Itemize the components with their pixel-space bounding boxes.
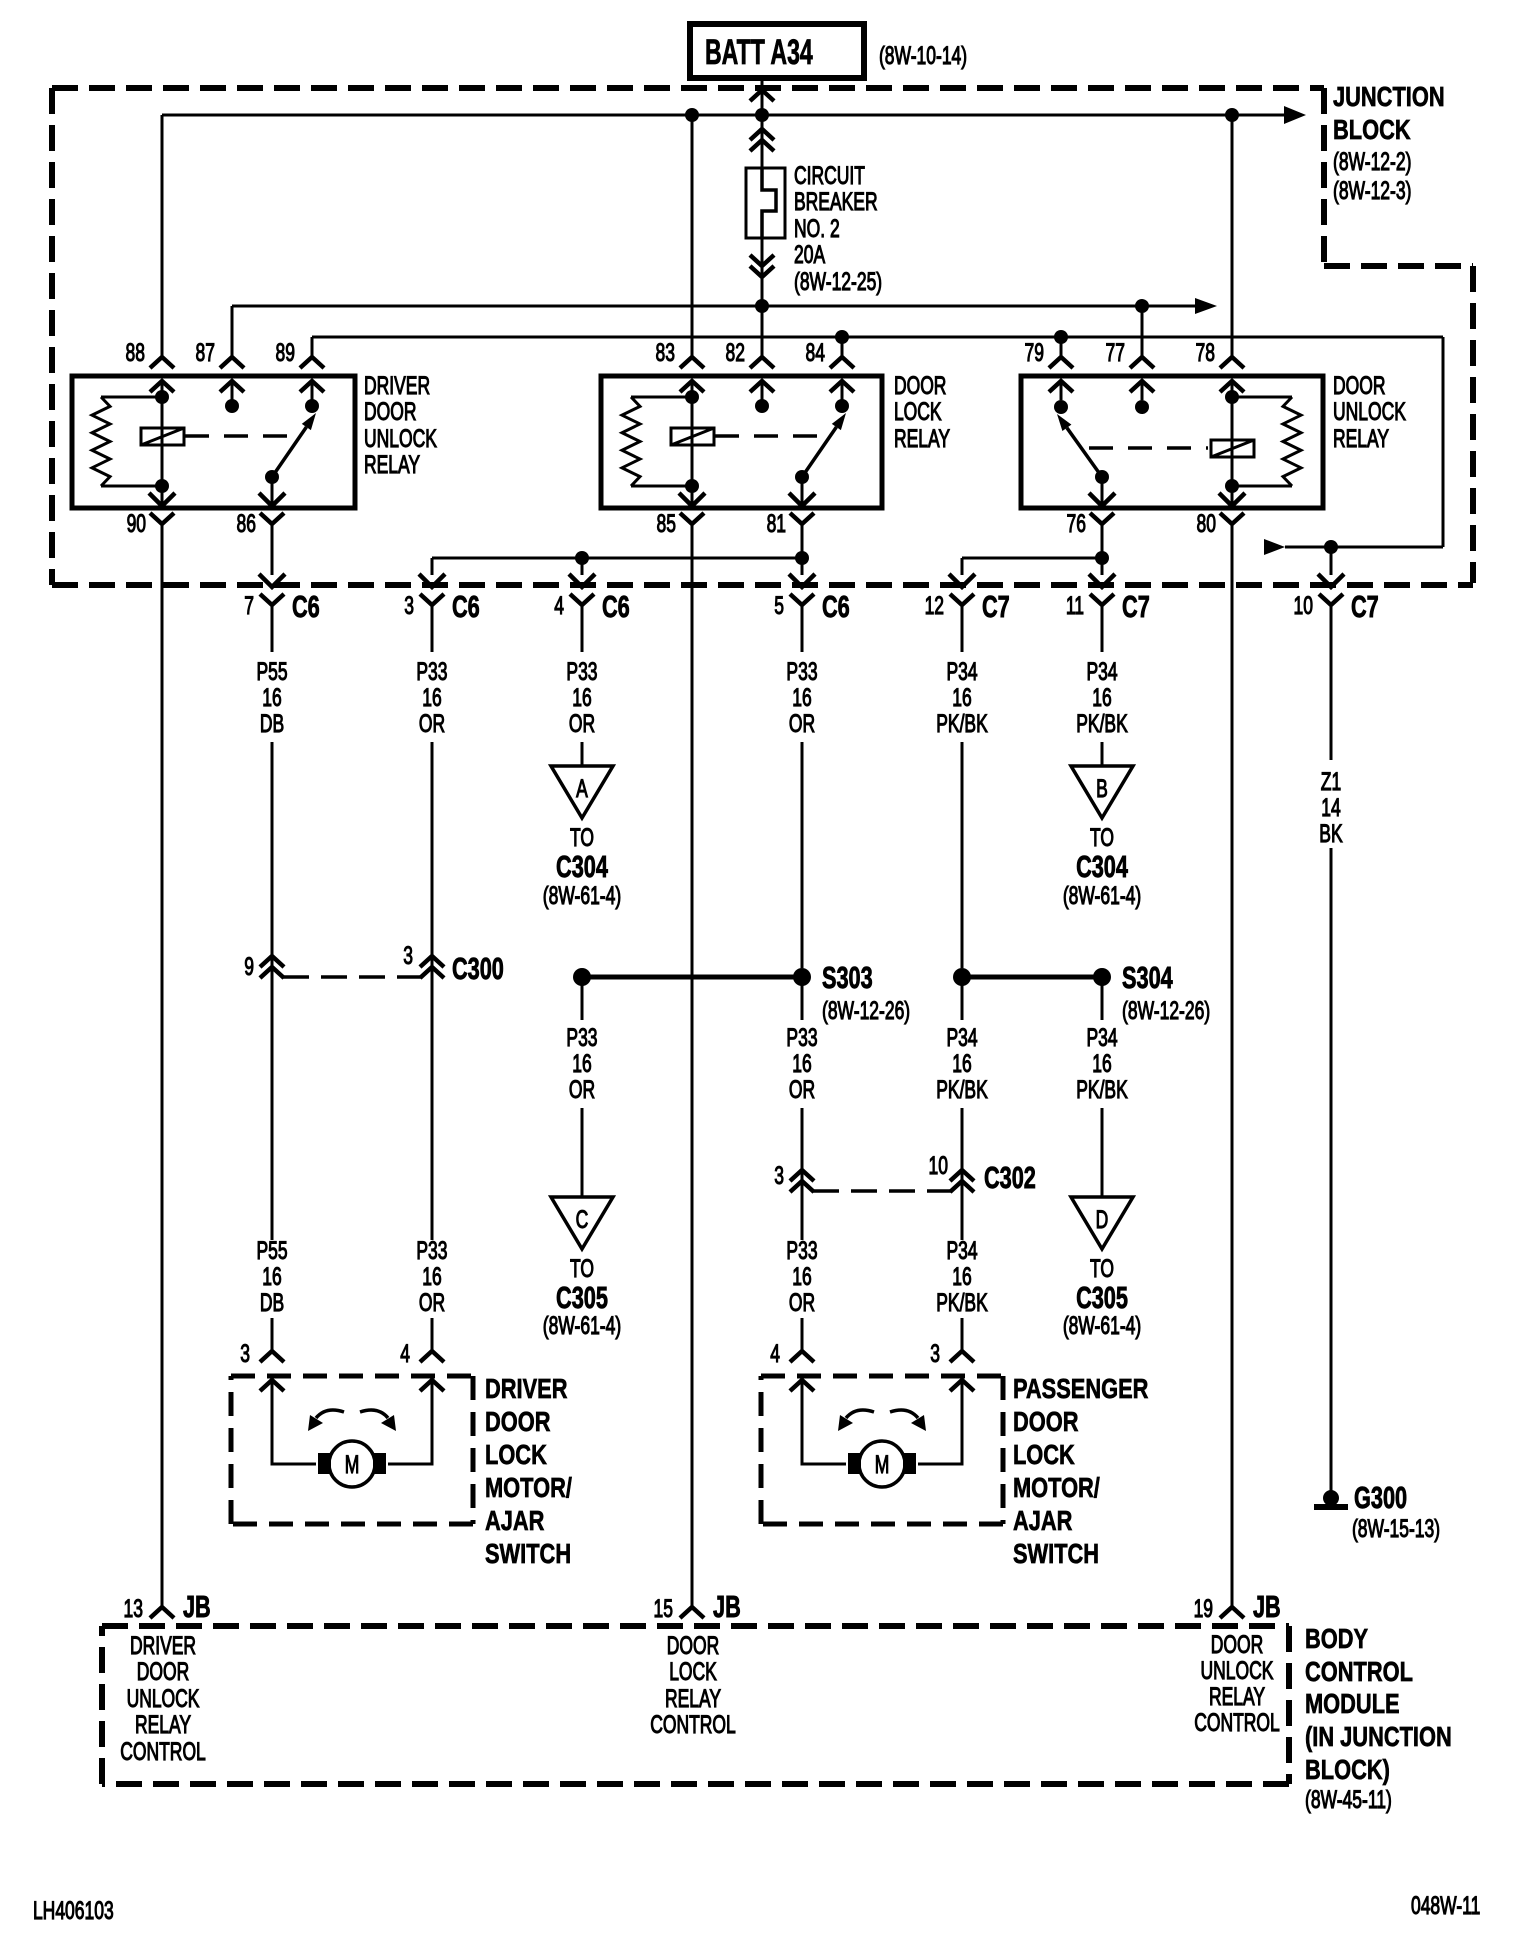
- label driver door unlock relay control: [120, 1631, 206, 1766]
- svg-text:C6: C6: [292, 589, 320, 624]
- wire label P55 16 DB: [256, 657, 287, 738]
- svg-text:RELAY: RELAY: [135, 1710, 191, 1739]
- junction at 4 C6 tap: [575, 551, 589, 565]
- label TO C305: [1063, 1254, 1141, 1340]
- svg-text:SWITCH: SWITCH: [485, 1538, 571, 1569]
- svg-text:3: 3: [240, 1339, 250, 1368]
- svg-text:(8W-12-2): (8W-12-2): [1333, 147, 1411, 176]
- svg-text:OR: OR: [789, 1288, 815, 1317]
- svg-text:16: 16: [792, 1262, 811, 1291]
- svg-text:(IN JUNCTION: (IN JUNCTION: [1305, 1721, 1452, 1752]
- svg-text:16: 16: [1092, 683, 1111, 712]
- wire S304 branch to triangle D: [1101, 984, 1104, 1197]
- junction at pin 81 column: [795, 551, 809, 565]
- svg-text:M: M: [875, 1450, 890, 1479]
- label passenger door lock motor / ajar switch: [1013, 1373, 1148, 1569]
- svg-text:JB: JB: [183, 1589, 211, 1624]
- connector C300 (pins 9 and 3): [244, 941, 504, 986]
- relay switch (movable contact): [265, 413, 316, 506]
- svg-text:RELAY: RELAY: [364, 450, 420, 479]
- relay coil suppression resistor: [622, 397, 692, 486]
- svg-text:LOCK: LOCK: [894, 397, 942, 426]
- svg-text:C7: C7: [982, 589, 1010, 624]
- svg-text:15: 15: [654, 1594, 673, 1623]
- battery feed box BATT A34: [690, 24, 864, 78]
- svg-text:87: 87: [196, 338, 215, 367]
- label door unlock relay control: [1194, 1630, 1280, 1737]
- wire P33 16 OR (C300-3 to driver motor pin 4): [400, 1318, 444, 1368]
- wire P34 16 PK/BK (C7-11 to triangle B): [1089, 524, 1115, 766]
- circuit breaker No. 2 20A: [746, 168, 785, 238]
- connector C6 pin 3 at junction block border: [404, 589, 479, 624]
- svg-text:P33: P33: [416, 657, 447, 686]
- svg-text:C7: C7: [1122, 589, 1150, 624]
- svg-text:(8W-61-4): (8W-61-4): [1063, 881, 1141, 910]
- svg-text:13: 13: [124, 1594, 143, 1623]
- svg-text:P34: P34: [1086, 1023, 1117, 1052]
- junction on bus 1 at battery column: [755, 108, 769, 122]
- svg-text:C: C: [576, 1205, 589, 1234]
- relay pin 90: [127, 493, 175, 538]
- svg-text:C304: C304: [1076, 849, 1128, 884]
- svg-text:RELAY: RELAY: [1333, 424, 1389, 453]
- wire P34 16 PK/BK (C302-10 to passenger motor pin 3): [930, 1318, 974, 1368]
- svg-text:CIRCUIT: CIRCUIT: [794, 161, 865, 190]
- splice S303: [573, 960, 910, 1025]
- driver door lock motor / ajar switch motor symbol: [318, 1441, 386, 1487]
- svg-text:JUNCTION: JUNCTION: [1333, 81, 1445, 112]
- wire label P33 16 OR: [786, 1236, 817, 1317]
- svg-text:P34: P34: [946, 657, 977, 686]
- ground G300: [1314, 1480, 1440, 1543]
- svg-text:(8W-61-4): (8W-61-4): [543, 881, 621, 910]
- svg-text:PK/BK: PK/BK: [936, 709, 988, 738]
- svg-text:PK/BK: PK/BK: [1076, 709, 1128, 738]
- svg-text:UNLOCK: UNLOCK: [127, 1684, 200, 1713]
- svg-text:16: 16: [572, 1049, 591, 1078]
- svg-text:LOCK: LOCK: [669, 1657, 717, 1686]
- relay coil: [141, 381, 184, 506]
- connector C6 pin 5 at junction block border: [774, 589, 849, 624]
- connector C6 pin 4 at junction block border: [554, 589, 629, 624]
- svg-text:PK/BK: PK/BK: [936, 1075, 988, 1104]
- relay pin 76: [1067, 493, 1115, 538]
- wire label P34 16 PK/BK: [936, 1023, 988, 1104]
- junction block pin 15 JB: [654, 1589, 741, 1624]
- wire circuit breaker output to bus line 2: [750, 238, 774, 306]
- svg-text:14: 14: [1321, 793, 1340, 822]
- svg-text:(8W-12-26): (8W-12-26): [1122, 996, 1210, 1025]
- svg-text:DRIVER: DRIVER: [364, 371, 430, 400]
- svg-text:20A: 20A: [794, 240, 826, 269]
- relay pin 78: [1196, 115, 1244, 392]
- svg-text:G300: G300: [1354, 1480, 1407, 1515]
- svg-text:C300: C300: [452, 951, 504, 986]
- relay box door unlock relay: [1021, 376, 1323, 508]
- svg-text:SWITCH: SWITCH: [1013, 1538, 1099, 1569]
- svg-text:P33: P33: [786, 1023, 817, 1052]
- relay contact pin 79 stationary: [1054, 400, 1068, 414]
- wire pin 86 to connector C6-7: [259, 524, 285, 587]
- svg-text:A: A: [576, 774, 588, 803]
- connector C6 pin 7 at junction block border: [244, 589, 319, 624]
- splice S304: [953, 960, 1210, 1025]
- svg-text:C6: C6: [452, 589, 480, 624]
- relay coil suppression resistor: [1232, 397, 1301, 486]
- svg-text:(8W-45-11): (8W-45-11): [1305, 1785, 1392, 1814]
- wire P33 16 OR (C6-4 to triangle A): [581, 605, 584, 766]
- svg-text:3: 3: [403, 941, 413, 970]
- relay contact pin 89 stationary: [305, 399, 319, 413]
- svg-text:5: 5: [774, 591, 784, 620]
- svg-text:DOOR: DOOR: [1211, 1630, 1263, 1659]
- svg-text:C305: C305: [556, 1280, 608, 1315]
- wire driver door unlock relay control (pin 90 to JB-13): [150, 524, 174, 1618]
- circuit breaker label: [794, 161, 882, 296]
- junction block dashed border: [52, 88, 1473, 585]
- junction on bus 3 at pin 84 column: [835, 330, 849, 344]
- svg-text:16: 16: [952, 683, 971, 712]
- svg-text:C6: C6: [602, 589, 630, 624]
- svg-text:PASSENGER: PASSENGER: [1013, 1373, 1148, 1404]
- svg-text:LH406103: LH406103: [33, 1896, 114, 1925]
- relay pin 86: [237, 493, 285, 538]
- svg-text:DOOR: DOOR: [894, 371, 946, 400]
- wire label P33 16 OR: [416, 657, 447, 738]
- sheet number 048W-11: [1411, 1891, 1480, 1920]
- junction on bus 1 at pin 83 column: [685, 108, 699, 122]
- relay coil: [1211, 381, 1254, 506]
- connector C7 pin 12 at junction block border: [925, 589, 1010, 624]
- svg-text:OR: OR: [569, 1075, 595, 1104]
- relay pin 80: [1197, 493, 1245, 538]
- wire P55 16 DB (C300-9 to driver motor pin 3): [240, 1318, 284, 1368]
- relay box driver door unlock relay: [72, 376, 355, 508]
- wire S304 branch to C302-10: [961, 984, 964, 1240]
- svg-text:(8W-12-26): (8W-12-26): [822, 996, 910, 1025]
- svg-text:10: 10: [929, 1151, 948, 1180]
- svg-text:16: 16: [422, 1262, 441, 1291]
- wire label P33 16 OR: [786, 657, 817, 738]
- svg-text:16: 16: [262, 1262, 281, 1291]
- svg-text:P33: P33: [566, 657, 597, 686]
- svg-text:(8W-15-13): (8W-15-13): [1352, 1514, 1440, 1543]
- svg-text:D: D: [1096, 1205, 1109, 1234]
- svg-text:C7: C7: [1351, 589, 1379, 624]
- relay pin 79: [1025, 337, 1073, 392]
- label door unlock relay: [1333, 371, 1406, 453]
- relay pin 82: [726, 306, 774, 392]
- svg-text:TO: TO: [1090, 823, 1114, 852]
- svg-text:P33: P33: [416, 1236, 447, 1265]
- relay pin 85: [657, 493, 705, 538]
- svg-text:(8W-12-25): (8W-12-25): [794, 267, 882, 296]
- junction on bus 2 at battery column: [755, 299, 769, 313]
- svg-text:TO: TO: [1090, 1254, 1114, 1283]
- driver door lock motor / ajar switch lead wires: [260, 1380, 444, 1464]
- svg-text:BLOCK: BLOCK: [1333, 114, 1411, 145]
- wire Z1 14 BK to ground: [1330, 605, 1333, 1492]
- svg-text:BK: BK: [1319, 819, 1343, 848]
- svg-text:DRIVER: DRIVER: [485, 1373, 567, 1404]
- svg-text:DRIVER: DRIVER: [130, 1631, 196, 1660]
- svg-text:B: B: [1096, 774, 1108, 803]
- wire relay 81 output distribution line: [419, 558, 802, 587]
- svg-text:PK/BK: PK/BK: [1076, 1075, 1128, 1104]
- wire bus line 2 (circuit breaker output to relay pins 87 / 82 / 77): [232, 298, 1217, 314]
- off-page connector triangle A: [551, 766, 613, 818]
- svg-text:(8W-12-3): (8W-12-3): [1333, 176, 1411, 205]
- svg-text:UNLOCK: UNLOCK: [364, 424, 437, 453]
- driver door lock motor / ajar switch rotation arrows: [308, 1410, 396, 1431]
- wire P33 16 OR (C302-3 to passenger motor pin 4): [770, 1318, 814, 1368]
- svg-text:85: 85: [657, 509, 676, 538]
- svg-text:4: 4: [554, 591, 564, 620]
- wire P33 16 OR (C6-3 to C300-3): [431, 605, 434, 1240]
- svg-text:P55: P55: [256, 1236, 287, 1265]
- svg-text:4: 4: [400, 1339, 410, 1368]
- relay pin 88: [126, 115, 174, 392]
- svg-text:7: 7: [244, 591, 254, 620]
- junction block pin 13 JB: [124, 1589, 211, 1624]
- body control module dashed border: [102, 1626, 1289, 1784]
- svg-text:(8W-61-4): (8W-61-4): [1063, 1311, 1141, 1340]
- svg-text:TO: TO: [570, 1254, 594, 1283]
- passenger door lock motor / ajar switch lead wires: [790, 1380, 974, 1464]
- svg-text:84: 84: [806, 338, 825, 367]
- svg-text:(8W-10-14): (8W-10-14): [879, 41, 967, 70]
- svg-text:16: 16: [262, 683, 281, 712]
- wire door lock relay control (pin 85 to JB-15): [680, 524, 704, 1618]
- svg-text:3: 3: [774, 1161, 784, 1190]
- off-page connector triangle C: [551, 1197, 613, 1249]
- relay switch (movable contact): [795, 413, 846, 506]
- wire relay 76 output distribution line: [949, 558, 1102, 587]
- label door lock relay: [894, 371, 950, 453]
- wire label P34 16 PK/BK: [936, 657, 988, 738]
- junction on bus-3 return at Z1 ground column: [1324, 540, 1338, 554]
- passenger door lock motor / ajar switch rotation arrows: [838, 1410, 926, 1431]
- relay pin 81: [767, 493, 815, 538]
- relay box door lock relay: [601, 376, 882, 508]
- drawing number LH406103: [33, 1896, 114, 1925]
- svg-text:19: 19: [1194, 1594, 1213, 1623]
- svg-text:C304: C304: [556, 849, 608, 884]
- wire label P33 16 OR: [786, 1023, 817, 1104]
- reference (8W-10-14): [879, 41, 967, 70]
- svg-text:81: 81: [767, 509, 786, 538]
- svg-text:4: 4: [770, 1339, 780, 1368]
- svg-text:80: 80: [1197, 509, 1216, 538]
- svg-text:JB: JB: [713, 1589, 741, 1624]
- label TO C304: [543, 823, 621, 910]
- svg-text:16: 16: [572, 683, 591, 712]
- driver door lock motor / ajar switch dashed enclosure: [231, 1376, 473, 1524]
- wire S303 branch to C302-3: [801, 984, 804, 1240]
- wire bus line 3 (relay pins 89 / 84 / 79, loops to door unlock relay feed): [312, 337, 1443, 555]
- wire Z1 tap to connector C7-10: [1318, 547, 1344, 587]
- svg-text:C305: C305: [1076, 1280, 1128, 1315]
- svg-text:UNLOCK: UNLOCK: [1201, 1656, 1274, 1685]
- svg-text:83: 83: [656, 338, 675, 367]
- svg-text:Z1: Z1: [1321, 767, 1341, 796]
- svg-text:16: 16: [422, 683, 441, 712]
- svg-text:RELAY: RELAY: [1209, 1682, 1265, 1711]
- label driver door unlock relay: [364, 371, 437, 479]
- junction on bus 2 at pin 77 column: [1135, 299, 1149, 313]
- svg-text:12: 12: [925, 591, 944, 620]
- svg-text:C302: C302: [984, 1160, 1036, 1195]
- wire label P55 16 DB: [256, 1236, 287, 1317]
- label TO C304: [1063, 823, 1141, 910]
- svg-text:C6: C6: [822, 589, 850, 624]
- svg-text:16: 16: [952, 1049, 971, 1078]
- relay coil suppression resistor: [92, 397, 162, 486]
- svg-text:9: 9: [244, 952, 254, 981]
- svg-text:S303: S303: [822, 960, 873, 995]
- svg-text:(8W-61-4): (8W-61-4): [543, 1311, 621, 1340]
- svg-text:DOOR: DOOR: [667, 1631, 719, 1660]
- svg-text:MODULE: MODULE: [1305, 1688, 1400, 1719]
- svg-text:S304: S304: [1122, 960, 1173, 995]
- label driver door lock motor / ajar switch: [485, 1373, 572, 1569]
- wire label P34 16 PK/BK: [936, 1236, 988, 1317]
- svg-text:OR: OR: [789, 1075, 815, 1104]
- wire label Z1 14 BK: [1319, 767, 1343, 848]
- svg-text:P33: P33: [786, 1236, 817, 1265]
- svg-text:CONTROL: CONTROL: [1194, 1708, 1280, 1737]
- svg-text:16: 16: [792, 1049, 811, 1078]
- svg-text:P34: P34: [946, 1023, 977, 1052]
- wire P33 16 OR (C6-5 to splice S303): [789, 524, 815, 968]
- svg-text:DB: DB: [260, 709, 284, 738]
- svg-text:DOOR: DOOR: [1333, 371, 1385, 400]
- svg-text:77: 77: [1106, 338, 1125, 367]
- relay actuation dashed link: [1089, 446, 1208, 450]
- svg-text:89: 89: [276, 338, 295, 367]
- svg-text:DOOR: DOOR: [364, 397, 416, 426]
- svg-text:PK/BK: PK/BK: [936, 1288, 988, 1317]
- svg-text:OR: OR: [789, 709, 815, 738]
- wire battery feed into junction block: [750, 78, 774, 168]
- svg-text:RELAY: RELAY: [894, 424, 950, 453]
- wire label P33 16 OR: [416, 1236, 447, 1317]
- wire label P33 16 OR: [566, 657, 597, 738]
- off-page connector triangle D: [1071, 1197, 1133, 1249]
- wire bus line 1 (battery feed to relay pins 88 / 83 / 78): [162, 106, 1306, 124]
- svg-text:M: M: [345, 1450, 360, 1479]
- wire P55 16 DB (C6-7 to C300-9): [271, 605, 274, 1240]
- svg-text:BATT A34: BATT A34: [705, 33, 813, 72]
- svg-text:16: 16: [792, 683, 811, 712]
- svg-text:DOOR: DOOR: [485, 1406, 550, 1437]
- svg-text:BLOCK): BLOCK): [1305, 1754, 1390, 1785]
- svg-text:79: 79: [1025, 338, 1044, 367]
- wire S303 branch to triangle C: [581, 984, 584, 1197]
- junction block label: [1333, 81, 1445, 204]
- svg-text:3: 3: [930, 1339, 940, 1368]
- off-page connector triangle B: [1071, 766, 1133, 818]
- svg-text:CONTROL: CONTROL: [650, 1710, 736, 1739]
- svg-text:76: 76: [1067, 509, 1086, 538]
- svg-text:MOTOR/: MOTOR/: [1013, 1472, 1100, 1503]
- svg-text:OR: OR: [569, 709, 595, 738]
- svg-text:CONTROL: CONTROL: [1305, 1656, 1413, 1687]
- svg-text:P33: P33: [786, 657, 817, 686]
- svg-text:LOCK: LOCK: [1013, 1439, 1075, 1470]
- svg-text:16: 16: [1092, 1049, 1111, 1078]
- svg-text:CONTROL: CONTROL: [120, 1737, 206, 1766]
- svg-text:MOTOR/: MOTOR/: [485, 1472, 572, 1503]
- svg-text:048W-11: 048W-11: [1411, 1891, 1480, 1920]
- svg-text:DOOR: DOOR: [137, 1657, 189, 1686]
- relay contact pin 84 stationary: [835, 399, 849, 413]
- passenger door lock motor / ajar switch motor symbol: [848, 1441, 916, 1487]
- svg-text:TO: TO: [570, 823, 594, 852]
- wire door unlock relay control (pin 80 to JB-19): [1220, 524, 1244, 1618]
- connector C7 pin 10 at junction block border: [1294, 589, 1379, 624]
- svg-text:NO. 2: NO. 2: [794, 214, 840, 243]
- svg-text:RELAY: RELAY: [665, 1684, 721, 1713]
- svg-text:BREAKER: BREAKER: [794, 187, 878, 216]
- svg-text:JB: JB: [1253, 1589, 1281, 1624]
- svg-text:UNLOCK: UNLOCK: [1333, 397, 1406, 426]
- svg-text:90: 90: [127, 509, 146, 538]
- passenger door lock motor / ajar switch dashed enclosure: [761, 1376, 1003, 1524]
- label door lock relay control: [650, 1631, 736, 1739]
- svg-text:16: 16: [952, 1262, 971, 1291]
- wire label P34 16 PK/BK: [1076, 657, 1128, 738]
- svg-text:AJAR: AJAR: [485, 1505, 544, 1536]
- wire label P34 16 PK/BK: [1076, 1023, 1128, 1104]
- svg-text:82: 82: [726, 338, 745, 367]
- junction block pin 19 JB: [1194, 1589, 1281, 1624]
- wire label P33 16 OR: [566, 1023, 597, 1104]
- svg-text:3: 3: [404, 591, 414, 620]
- relay contact pin 82 stationary: [755, 399, 769, 413]
- svg-text:P34: P34: [946, 1236, 977, 1265]
- relay contact pin 87 stationary: [225, 399, 239, 413]
- svg-text:DOOR: DOOR: [1013, 1406, 1078, 1437]
- svg-text:78: 78: [1196, 338, 1215, 367]
- relay actuation dashed link: [185, 434, 289, 438]
- svg-text:88: 88: [126, 338, 145, 367]
- relay actuation dashed link: [715, 434, 819, 438]
- svg-text:86: 86: [237, 509, 256, 538]
- connector C7 pin 11 at junction block border: [1066, 589, 1150, 624]
- svg-text:DB: DB: [260, 1288, 284, 1317]
- svg-text:OR: OR: [419, 709, 445, 738]
- relay switch (movable contact): [1057, 414, 1109, 506]
- relay pin 84: [806, 337, 854, 392]
- relay pin 87: [196, 306, 244, 392]
- svg-text:P34: P34: [1086, 657, 1117, 686]
- svg-text:LOCK: LOCK: [485, 1439, 547, 1470]
- svg-text:BODY: BODY: [1305, 1623, 1368, 1654]
- relay contact pin 77 stationary: [1135, 400, 1149, 414]
- relay coil: [671, 381, 714, 506]
- junction at pin 76 column: [1095, 551, 1109, 565]
- connector C302 (pins 3 and 10): [774, 1151, 1036, 1195]
- junction on bus 3 at pin 79 column: [1054, 330, 1068, 344]
- wire P34 16 PK/BK (C7-12 to splice S304): [961, 605, 964, 968]
- relay pin 89: [276, 337, 324, 392]
- relay pin 77: [1106, 306, 1154, 392]
- svg-text:P33: P33: [566, 1023, 597, 1052]
- svg-text:OR: OR: [419, 1288, 445, 1317]
- svg-text:AJAR: AJAR: [1013, 1505, 1072, 1536]
- svg-text:P55: P55: [256, 657, 287, 686]
